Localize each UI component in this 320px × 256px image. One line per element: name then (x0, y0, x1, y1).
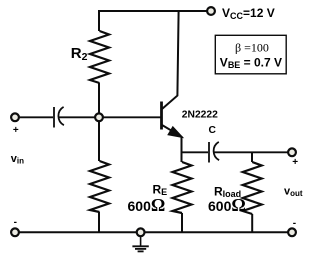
terminal: Vcc (207, 7, 215, 15)
terminal: output + (288, 148, 296, 156)
svg-text:vout: vout (284, 185, 303, 198)
wire: emitter down to emitter node (181, 136, 183, 153)
wire: capacitor to node A (59, 116, 95, 118)
resistor R2 (90, 31, 109, 83)
resistor Rload (243, 162, 262, 214)
wire: top supply rail (99, 10, 207, 12)
capacitor C curved plate (214, 142, 220, 160)
svg-text:-: - (14, 217, 17, 228)
resistor R1 (lower divider resistor) (90, 161, 109, 212)
wire: node A to transistor base (103, 116, 161, 118)
transistor Q1 collector lead (162, 11, 179, 109)
wire: Rload stub from output wire (251, 152, 253, 162)
svg-text:β =100: β =100 (235, 40, 269, 54)
node A (junction dot at base divider) (95, 113, 103, 121)
svg-text:600Ω: 600Ω (128, 195, 166, 215)
transistor Q1 emitter lead (162, 125, 181, 136)
svg-text:-: - (293, 218, 296, 229)
ground symbol (132, 237, 148, 252)
ground node circle (137, 228, 145, 236)
transistor Q1 emitter arrow (168, 127, 183, 138)
svg-text:+: + (13, 125, 19, 136)
wire: capacitor C to output terminal (214, 151, 288, 153)
terminal: output - (288, 228, 296, 236)
wire: emitter node to capacitor C (182, 151, 209, 153)
svg-text:600Ω: 600Ω (208, 195, 246, 215)
svg-text:2N2222: 2N2222 (182, 110, 218, 121)
wire: node A down to R1 (98, 121, 100, 161)
terminal: input - (11, 228, 19, 236)
transistor Q1 2N2222 base bar (160, 102, 163, 130)
wire: Rload bottom to ground rail (251, 214, 253, 232)
wire: RE bottom to ground rail (181, 213, 183, 232)
wire: bottom ground rail (19, 231, 288, 233)
capacitor Cin curved plate (58, 107, 64, 125)
wire: left branch vertical top (rail to R2) (98, 10, 100, 31)
svg-text:R2: R2 (71, 45, 88, 63)
svg-text:+: + (292, 157, 298, 168)
resistor RE (173, 162, 192, 213)
capacitor C flat plate (208, 142, 210, 163)
wire: R2 bottom to node A (98, 83, 100, 114)
wire: R1 bottom to ground rail (98, 212, 100, 232)
wire: emitter node down to RE (181, 152, 183, 162)
svg-text:VCC=12 V: VCC=12 V (222, 6, 275, 21)
wire: input terminal to capacitor (19, 116, 53, 118)
capacitor Cin flat plate (53, 107, 55, 128)
svg-text:vin: vin (11, 153, 24, 166)
terminal: input + (11, 113, 19, 121)
parameter box (215, 35, 286, 74)
svg-text:C: C (209, 125, 217, 136)
